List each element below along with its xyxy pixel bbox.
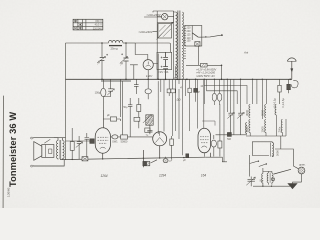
- wire v176: [175, 79, 177, 131]
- svg-text:≈220V 50Hz ≈4V: ≈220V 50Hz ≈4V: [196, 75, 215, 78]
- wire cathode line: [205, 157, 227, 162]
- electrolytic C5: [102, 79, 104, 128]
- capacitor C17: [288, 79, 290, 84]
- capacitor C13: [85, 133, 90, 159]
- speaker jumper: [44, 139, 50, 143]
- wire v190: [189, 79, 191, 131]
- inductor L2: [246, 123, 247, 134]
- connector J1: [298, 167, 305, 174]
- wire curl: [292, 80, 299, 87]
- right section below bus: [194, 79, 267, 135]
- capacitor box frame: [157, 52, 172, 69]
- wire v204: [203, 79, 205, 128]
- coil box frame: [252, 142, 271, 156]
- svg-text:164: 164: [201, 173, 207, 177]
- tube V2: [153, 132, 167, 146]
- node A junction dot: [101, 42, 103, 44]
- right rail: [173, 11, 175, 80]
- resistor R8: [137, 105, 141, 112]
- capacitor C9: [66, 139, 95, 144]
- svg-text:25mg: 25mg: [111, 46, 118, 50]
- svg-text:1264: 1264: [100, 174, 107, 178]
- speaker driver box: [42, 145, 54, 158]
- resistor R12 oval: [211, 104, 224, 162]
- wire v182: [181, 79, 183, 155]
- R15 near speaker: [70, 128, 89, 161]
- capacitor C14: [195, 79, 197, 88]
- resistor R6: [188, 88, 191, 93]
- C2 plus: [121, 53, 123, 55]
- resistor R14: [186, 154, 189, 158]
- capacitor C20: [227, 133, 231, 137]
- wire v169: [168, 79, 170, 96]
- svg-text:0,1-0,5µ: 0,1-0,5µ: [274, 98, 277, 108]
- T1 taps: [184, 26, 186, 59]
- capacitor C12: [77, 136, 82, 159]
- wire heater step: [135, 43, 148, 60]
- wire v179: [178, 79, 180, 139]
- inductor L4: [265, 105, 266, 118]
- svg-text:µF: µF: [107, 114, 110, 117]
- svg-text:GW1: GW1: [112, 141, 118, 144]
- wire V4 right stub: [153, 54, 158, 80]
- svg-text:50µ: 50µ: [123, 106, 128, 109]
- resistor R19: [278, 79, 298, 104]
- transformer T1 secondary: [182, 12, 183, 79]
- terminal hook top: [30, 137, 33, 139]
- capacitor C2 trimmer: [123, 58, 128, 61]
- svg-text:40,5 V: 40,5 V: [95, 24, 103, 27]
- wire B+ horizontal: [186, 65, 222, 79]
- C3 plus: [161, 57, 163, 59]
- inductor L6: [249, 120, 250, 133]
- inductor L9: [272, 143, 273, 157]
- svg-text:5000: 5000: [275, 150, 279, 156]
- switch S4 lever: [274, 169, 291, 174]
- resistor R4 box pair: [167, 89, 171, 93]
- svg-text:gram.: gram.: [299, 164, 306, 167]
- wire fuse drop: [197, 46, 199, 65]
- inductor L7: [265, 120, 266, 133]
- wire V4 to bus: [147, 70, 149, 80]
- trimmer C15: [216, 113, 248, 137]
- svg-text:100µ: 100µ: [95, 92, 101, 95]
- bus junction dots: [101, 79, 103, 81]
- capacitor C4: [163, 67, 168, 80]
- ground: [288, 184, 297, 189]
- resistor R3: [201, 63, 208, 67]
- bus rail 2: [101, 80, 131, 82]
- wire v197: [197, 79, 199, 128]
- tube V3: [198, 128, 211, 156]
- inductor L10: [262, 174, 263, 184]
- switch S2 contacts: [143, 160, 157, 166]
- transformer T1 primary: [176, 12, 178, 78]
- svg-text:1000: 1000: [245, 126, 249, 133]
- lamp box: [153, 11, 174, 23]
- bottom right network: [246, 136, 305, 189]
- coil bank: [246, 105, 286, 137]
- potentiometer P1: [122, 79, 153, 137]
- wire trimmer 2 drop: [125, 43, 127, 79]
- node B junction dot: [125, 42, 127, 44]
- resistor R9 oval: [112, 135, 118, 139]
- inductor L5: [275, 105, 276, 115]
- transformer T3: [267, 173, 268, 183]
- svg-text:ZWs: ZWs: [277, 126, 281, 132]
- svg-text:3000: 3000: [245, 109, 249, 116]
- resistor R13: [218, 141, 222, 148]
- bottom bus dots: [102, 158, 103, 159]
- grid row components right of V1: [111, 125, 153, 139]
- wire v164: [163, 79, 165, 131]
- fuse F1: [195, 42, 200, 47]
- svg-text:220/240: 220/240: [93, 27, 103, 30]
- C1 plus: [106, 54, 108, 56]
- voltage selector box: [185, 26, 202, 47]
- switch S1 line: [198, 35, 222, 37]
- svg-text:Loewe: Loewe: [7, 187, 11, 197]
- wire mains feed: [144, 16, 162, 18]
- wire heater return: [130, 65, 138, 80]
- svg-text:500: 500: [227, 138, 232, 141]
- table grid: [73, 19, 103, 30]
- wire coilbank drop: [280, 136, 282, 149]
- svg-text:≈4V ≈2A: ≈4V ≈2A: [159, 70, 169, 74]
- trimmer C16: [238, 113, 243, 115]
- switch S3: [250, 155, 267, 177]
- svg-text:1,2V: 1,2V: [146, 74, 153, 78]
- wire v158: [157, 81, 159, 134]
- wire trimmer 1 drop: [101, 43, 103, 79]
- resistor R18 oval: [217, 93, 221, 101]
- resistor R17 oval: [203, 79, 205, 85]
- capacitor C3: [163, 52, 168, 66]
- main bus HT: [66, 78, 293, 80]
- tube V1: [95, 128, 110, 153]
- verticals right cluster: [224, 79, 267, 135]
- resistor R-line selector box: [158, 24, 172, 39]
- svg-text:3000: 3000: [261, 109, 265, 116]
- wire top horizontal: [66, 42, 109, 44]
- svg-text:0,1-0,5µ: 0,1-0,5µ: [282, 98, 285, 108]
- inductor L1: [109, 40, 123, 45]
- capacitor C19: [134, 79, 139, 94]
- svg-text:P: P: [198, 90, 200, 94]
- wire L-shape 1: [204, 86, 247, 105]
- resistor R22: [272, 178, 275, 180]
- terminal hook bottom: [30, 165, 33, 167]
- lamp LA1: [162, 14, 168, 20]
- svg-text:Ant: Ant: [243, 51, 248, 55]
- resistor R7: [134, 117, 140, 121]
- inductor L8: [281, 120, 282, 133]
- wire L-shape 2: [207, 79, 238, 104]
- tuning capacitor C18: [248, 177, 255, 187]
- speaker cone: [34, 142, 42, 161]
- resistor R21 oval: [145, 89, 151, 94]
- wire lamp stubs: [157, 16, 174, 18]
- svg-text:50µ: 50µ: [260, 181, 265, 183]
- loudspeaker LS1: [30, 137, 65, 167]
- svg-text:≈110÷240V: ≈110÷240V: [139, 30, 154, 34]
- svg-text:1000: 1000: [261, 126, 265, 133]
- wire grid stub: [202, 121, 215, 126]
- resistor R16: [82, 157, 88, 161]
- wire anode row: [216, 134, 248, 136]
- output transformer T2: [57, 141, 59, 159]
- capacitor C6 trimmer: [103, 79, 110, 96]
- wire rectifier top: [135, 43, 170, 52]
- resistor R20: [145, 128, 150, 132]
- wire coil bottoms: [246, 115, 286, 136]
- capacitor C8: [128, 98, 132, 137]
- svg-text:50000: 50000: [121, 141, 128, 144]
- T1 primary stub: [174, 12, 176, 78]
- wire v186: [185, 79, 187, 96]
- mid verticals cluster: [158, 79, 215, 155]
- C4 plus: [161, 66, 163, 68]
- rectifier tube V4: [143, 60, 153, 70]
- capacitor C1 trimmer: [100, 58, 105, 61]
- wire box to right: [275, 149, 298, 169]
- wire v161: [160, 79, 162, 92]
- capacitor C10: [147, 130, 152, 132]
- scan gutter line: [2, 96, 4, 208]
- resistor R11: [170, 136, 174, 159]
- electrolytic C11: [163, 157, 168, 163]
- wire v172: [172, 79, 174, 136]
- wire v122: [121, 81, 123, 137]
- transformer T1 core: [178, 11, 180, 81]
- switch S1 lever: [192, 33, 198, 37]
- left rail: [156, 23, 158, 80]
- svg-text:00: 00: [177, 98, 181, 102]
- wire speaker top: [34, 137, 66, 139]
- svg-text:100: 100: [187, 39, 192, 42]
- wire v224 low: [223, 104, 225, 162]
- inductor L3: [249, 105, 250, 118]
- resistor R2: [103, 79, 120, 128]
- resistor R10: [121, 135, 128, 139]
- frame wire left vertical: [65, 43, 67, 160]
- bottom bus: [60, 146, 211, 168]
- wire speaker bottom: [34, 159, 65, 166]
- wire after coil: [123, 42, 135, 44]
- wire mains feed lower: [153, 31, 157, 33]
- svg-text:1294: 1294: [159, 173, 166, 177]
- svg-text:Tonmeister 36 W: Tonmeister 36 W: [8, 112, 18, 187]
- wire row: [111, 136, 153, 138]
- antenna A1: [287, 58, 296, 79]
